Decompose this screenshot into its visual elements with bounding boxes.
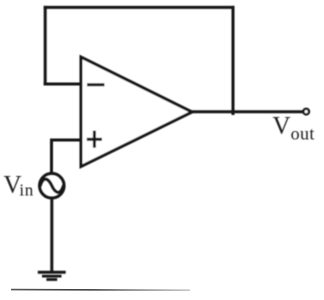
wire feedback vertical from output node up bbox=[232, 7, 235, 113]
wire non-inverting input horizontal bbox=[52, 139, 82, 142]
wire feedback left vertical down bbox=[44, 7, 47, 84]
wire source top vertical bbox=[50, 140, 53, 173]
op-amp plus input label bbox=[88, 132, 100, 146]
output terminal circle bbox=[303, 109, 309, 115]
wire feedback top horizontal bbox=[45, 6, 233, 9]
svg-text:Vin: Vin bbox=[4, 171, 34, 199]
op-amp minus input label bbox=[89, 83, 104, 86]
wire source to ground bbox=[50, 199, 53, 271]
AC source V1 circle bbox=[40, 173, 65, 198]
ground bar 1 bbox=[39, 271, 64, 274]
op-amp U1 triangle bbox=[81, 57, 192, 167]
wire output bbox=[192, 110, 302, 113]
AC source sine wave bbox=[40, 179, 63, 192]
ground bar 2 bbox=[43, 275, 60, 278]
ground bar 3 bbox=[48, 278, 56, 281]
wire to inverting input bbox=[45, 83, 81, 86]
bottom rule bbox=[11, 289, 190, 292]
svg-text:Vout: Vout bbox=[273, 113, 315, 144]
